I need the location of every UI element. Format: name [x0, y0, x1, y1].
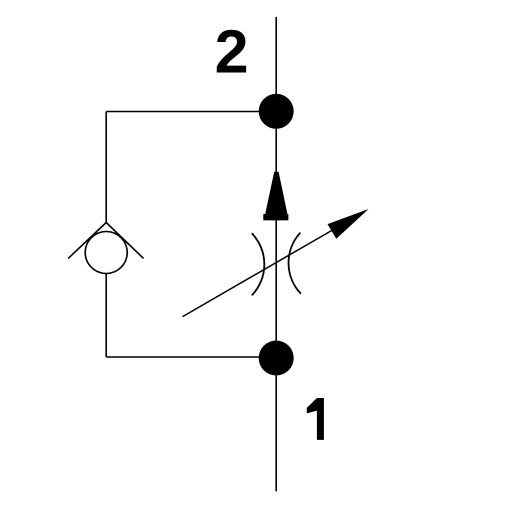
variable-adjustment arrow head: [328, 209, 369, 239]
wire bottom branch horizontal: [106, 356, 276, 358]
svg-text:2: 2: [215, 17, 249, 85]
wire left branch upper vertical: [105, 112, 107, 223]
flow direction arrow on main line: [263, 172, 288, 221]
node junction top: [259, 94, 294, 129]
check valve seat: [68, 223, 143, 259]
wire top branch horizontal: [106, 111, 276, 113]
main vertical line (port 2 to port 1): [275, 17, 277, 491]
variable restrictor right arc: [289, 233, 301, 294]
node junction bottom: [259, 341, 294, 376]
variable-adjustment arrow shaft: [183, 229, 335, 317]
wire left branch lower vertical: [105, 274, 107, 358]
variable restrictor left arc: [252, 233, 265, 295]
port label 1: [307, 398, 324, 440]
check valve ball: [85, 232, 127, 274]
